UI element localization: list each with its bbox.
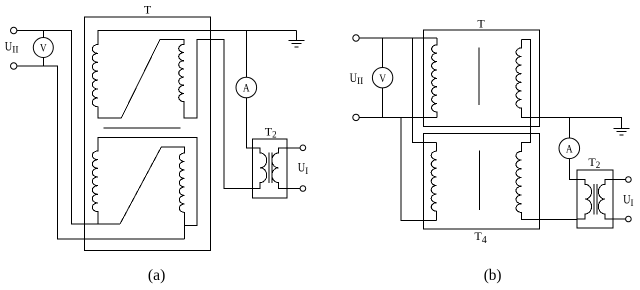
ground symbol (b) bar1 [614,127,630,129]
svg-text:UII: UII [5,38,19,55]
svg-text:(a): (a) [148,267,165,284]
T2 (b) core line 1 [593,184,595,215]
T2 (b) primary winding [577,180,591,220]
wire ammeter drop (a) [245,31,247,77]
svg-text:T: T [144,3,152,17]
series link T to T4 secondary (b) [516,40,577,220]
wire bottom input (b) [359,116,437,118]
wire top input (b) [359,37,437,39]
wire V top tap (a) [42,31,44,38]
svg-text:V: V [379,73,386,85]
terminal J3 (b) output top [626,177,632,183]
T2 (a) primary winding [252,148,266,189]
svg-text:A: A [243,83,250,95]
winding W2 lower-left coil (a) [92,138,98,224]
transformer T2 (b) box [577,170,613,228]
T4 (b) core line [479,151,481,210]
winding W1 upper (a) with slider diagonal and HV take-off [92,31,296,189]
wire V bottom tap (a) [42,58,44,67]
ground symbol (b) bar2 [617,131,627,133]
wire ammeter to T2 (b) [569,159,577,180]
winding W2 lower diagonal and right coil (a) [120,147,185,239]
wire ammeter to T2 (a) [246,98,252,148]
T2 (a) core line 2 [271,153,273,184]
svg-text:T: T [477,17,485,31]
terminal J1 (b) top input [353,35,359,41]
svg-text:UII: UII [350,70,364,87]
terminal J3 (a) output top [300,145,306,151]
svg-text:T4: T4 [474,229,486,246]
terminal J4 (a) output bottom [300,186,306,192]
ground symbol (a) bar2 [292,43,302,45]
wire tap to T4 primary bottom (b) [401,117,437,220]
terminal J2 (b) bottom input [353,114,359,120]
wire T2 (b) to bottom output terminal [613,218,626,220]
T (b) primary winding [432,38,438,117]
T4 (b) primary winding [431,142,437,220]
ground symbol (b) bar3 [620,134,624,136]
voltmeter V (b) body [372,68,392,88]
ground symbol (a) bar3 [295,46,299,48]
ammeter A (b) body [559,138,580,159]
core separator line (a) [103,127,180,129]
wire top input (a): terminal to bottom winding lower edge [17,31,120,225]
svg-text:A: A [566,144,573,156]
svg-text:T2: T2 [588,155,600,170]
T2 (b) core line 2 [596,184,598,215]
ammeter A (a) body [236,77,257,98]
transformer T2 (a) box [252,139,286,198]
T2 (a) secondary winding [272,148,287,189]
svg-text:(b): (b) [484,267,502,284]
bottom winding frame (a) top and right edge [98,138,198,226]
T2 (b) secondary winding [598,180,612,220]
transformer box T (a) [84,17,210,251]
wire T2 (a) to bottom output terminal [287,188,300,190]
svg-text:V: V [40,43,47,55]
svg-text:UI: UI [298,160,308,176]
svg-text:T2: T2 [265,124,277,139]
T (b) core line [478,47,480,105]
wire T2 (a) to top output terminal [287,147,300,149]
T (b) secondary winding and earth wire [516,40,622,129]
transformer box T4 (b) [423,133,539,229]
terminal J4 (b) output bottom [626,216,632,222]
voltmeter V (a) body [33,38,53,58]
wire ammeter drop (b) [568,117,570,138]
terminal J1 (a) top input [11,27,17,33]
wire V bottom tap (b) [382,88,384,118]
T2 (a) core line 1 [268,153,270,184]
wire tap to T4 primary top (b) [413,38,437,142]
ground symbol (a) stem [296,31,298,41]
wire V top tap (b) [382,38,384,68]
terminal J2 (a) bottom input [11,63,17,69]
ground symbol (a) bar1 [289,40,305,42]
transformer box T (b) [423,30,539,126]
wire T2 (b) to top output terminal [613,179,626,181]
wire bottom input (a): terminal to right winding bottom return [17,66,185,239]
svg-text:UI: UI [623,192,633,208]
